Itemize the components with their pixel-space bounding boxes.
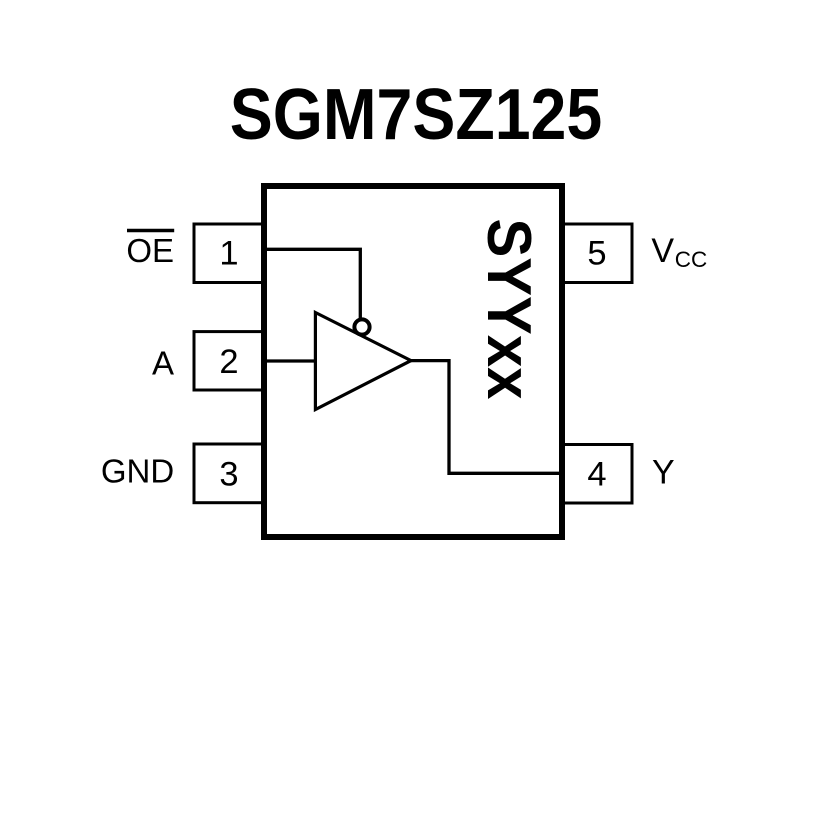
wire A pin 2 to buffer input xyxy=(262,359,316,362)
buffer triangle U1 gate xyxy=(315,313,411,410)
svg-text:1: 1 xyxy=(219,235,238,273)
pin 5 box xyxy=(562,224,633,283)
pin 4 box xyxy=(562,445,633,504)
svg-text:Y: Y xyxy=(652,454,675,492)
svg-text:4: 4 xyxy=(587,456,606,494)
pin 2 box xyxy=(194,332,265,390)
svg-text:CC: CC xyxy=(675,247,708,272)
pin 3 box xyxy=(194,444,265,503)
svg-text:2: 2 xyxy=(219,343,238,381)
pin 1 box xyxy=(194,224,265,283)
svg-text:3: 3 xyxy=(219,455,238,493)
svg-text:A: A xyxy=(152,344,174,381)
wire OE pin 1 to enable bubble xyxy=(262,249,360,318)
IC body U1 xyxy=(264,186,562,537)
wire buffer output to Y pin 4 xyxy=(410,361,564,474)
svg-text:GND: GND xyxy=(101,453,174,490)
svg-text:5: 5 xyxy=(587,235,606,273)
svg-text:SYYxx: SYYxx xyxy=(474,219,543,400)
svg-text:OE: OE xyxy=(126,232,174,269)
svg-text:V: V xyxy=(651,232,674,270)
svg-text:SGM7SZ125: SGM7SZ125 xyxy=(230,75,602,155)
OE overline xyxy=(127,229,174,233)
enable bubble xyxy=(354,319,369,334)
